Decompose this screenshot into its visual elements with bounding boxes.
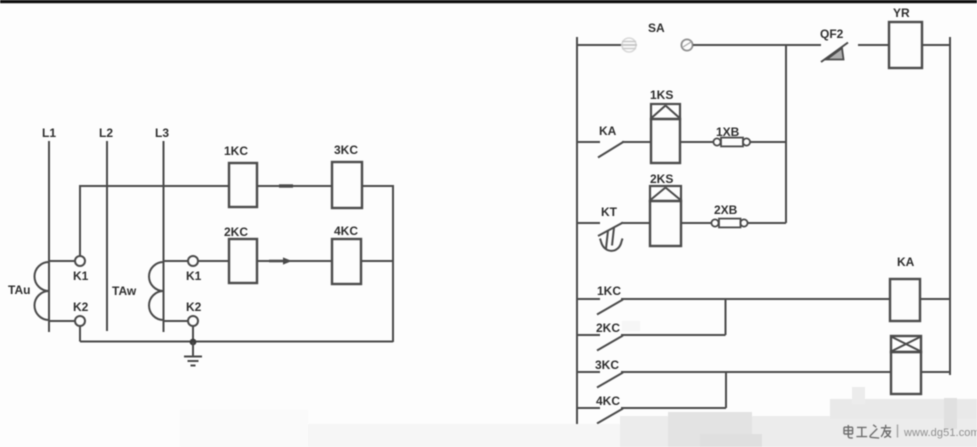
contact 1KC xyxy=(577,284,623,315)
wire: 2XB to vertical drop xyxy=(748,222,787,224)
wire: phase line L1 xyxy=(48,141,50,332)
wire: phase line L2 xyxy=(106,141,108,331)
signal relay coil (KS) with flag xyxy=(891,336,921,394)
svg-text:www.dg51.com: www.dg51.com xyxy=(903,427,977,439)
svg-text:1KC: 1KC xyxy=(224,144,248,158)
wire: 2KC to 4KC with arrow xyxy=(257,260,332,262)
wire: 3KC/4KC junction vertical xyxy=(725,372,727,408)
svg-text:KA: KA xyxy=(599,124,617,138)
link 2XB xyxy=(711,203,747,227)
wire: phase line L3 xyxy=(163,141,165,332)
wire: left control bus xyxy=(576,37,578,447)
terminal K2 of TAw xyxy=(188,316,198,326)
wire: YR to right bus xyxy=(922,44,950,46)
svg-text:K1: K1 xyxy=(186,269,202,283)
switch SA xyxy=(621,21,693,52)
svg-text:L1: L1 xyxy=(42,126,56,140)
contact KA xyxy=(577,124,624,158)
junction dot at TAw K2 / bottom bus xyxy=(190,339,197,346)
contact KT (time delay) xyxy=(577,205,623,251)
wire: right control bus xyxy=(949,37,951,375)
wire: right return vertical xyxy=(392,185,394,342)
contact 4KC xyxy=(577,394,623,424)
current transformer TAw xyxy=(112,261,188,321)
wire: K2 of TAw to bottom bus xyxy=(192,326,194,342)
wire: 1KS to 1XB xyxy=(680,141,713,143)
svg-text:2KC: 2KC xyxy=(224,225,248,239)
svg-text:TAw: TAw xyxy=(112,284,137,298)
wire: KT to 2KS xyxy=(621,222,650,224)
current transformer TAu xyxy=(8,261,75,321)
signal relay 1KS xyxy=(650,88,680,163)
signal relay 2KS xyxy=(650,172,681,246)
svg-text:K2: K2 xyxy=(186,300,202,314)
wire: bottom return bus xyxy=(80,341,393,343)
watermark smudge band xyxy=(180,321,977,447)
contact 3KC xyxy=(577,358,623,388)
terminal K2 of TAu xyxy=(75,316,85,326)
wire: 1KC to KA coil xyxy=(621,298,890,300)
svg-text:2KC: 2KC xyxy=(596,321,620,335)
ground xyxy=(184,342,202,366)
svg-text:3KC: 3KC xyxy=(334,143,358,157)
contact 2KC xyxy=(577,321,623,351)
wire: vertical drop from top rail to 1XB/2XB xyxy=(785,45,787,223)
wire: 2KS to 2XB xyxy=(681,222,711,224)
wire: 1XB to vertical drop xyxy=(750,141,786,143)
svg-text:3KC: 3KC xyxy=(595,358,619,372)
svg-text:L2: L2 xyxy=(99,126,113,140)
terminal K1 of TAw xyxy=(188,256,198,266)
svg-text:2XB: 2XB xyxy=(714,203,738,217)
svg-text:YR: YR xyxy=(893,6,910,20)
svg-text:1KS: 1KS xyxy=(650,88,673,102)
top black border bar xyxy=(0,0,977,3)
svg-text:TAu: TAu xyxy=(8,283,30,297)
svg-text:1KC: 1KC xyxy=(597,284,621,298)
svg-text:4KC: 4KC xyxy=(334,224,358,238)
terminal K1 of TAu xyxy=(75,256,85,266)
svg-text:SA: SA xyxy=(648,21,665,35)
arrow tick on 1KC-3KC wire xyxy=(279,184,293,187)
svg-text:4KC: 4KC xyxy=(596,394,620,408)
wire: QF2 to YR xyxy=(858,44,889,46)
svg-text:K1: K1 xyxy=(73,269,89,283)
wire: 2KC to junction below 1KC xyxy=(621,334,726,336)
link 1XB xyxy=(713,125,750,146)
wire: 4KC to right vertical xyxy=(361,260,393,262)
arrow on 2KC-4KC wire xyxy=(269,257,292,264)
wire: KS coil to right bus xyxy=(921,371,950,373)
svg-text:L3: L3 xyxy=(155,126,169,140)
wire: KA to 1KS xyxy=(622,141,651,143)
wire: KA coil to right bus xyxy=(920,298,950,300)
wire: 1KC/2KC junction vertical xyxy=(725,299,727,335)
wire: K2 of TAu to bottom bus xyxy=(79,326,81,342)
wire: K1 of TAw to 2KC xyxy=(198,260,229,262)
svg-text:KA: KA xyxy=(897,255,915,269)
svg-text:KT: KT xyxy=(601,205,618,219)
wire: top secondary bus from K1 of TAu to 1KC xyxy=(80,186,229,256)
wire: SA to QF2 xyxy=(693,44,821,46)
wire: top rail from left bus to SA xyxy=(577,44,621,46)
watermark text: dian gong zhi you | www.dg51.com xyxy=(844,425,891,438)
wire: 3KC to right vertical xyxy=(362,185,393,187)
wire: 3KC to KS coil xyxy=(621,371,891,373)
watermark separator xyxy=(897,425,899,438)
breaker contact QF2 xyxy=(820,27,848,62)
svg-text:QF2: QF2 xyxy=(820,27,844,41)
svg-text:2KS: 2KS xyxy=(650,172,673,186)
svg-text:K2: K2 xyxy=(73,300,89,314)
wire: 4KC to junction below 3KC xyxy=(621,407,726,409)
wire: 1KC to 3KC xyxy=(257,185,332,187)
